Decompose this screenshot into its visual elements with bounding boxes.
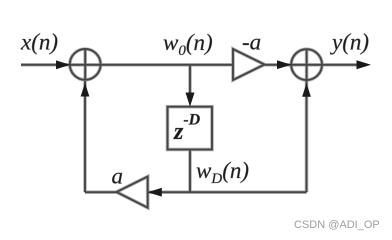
svg-text:wD(n): wD(n) (196, 158, 249, 187)
svg-text:w0(n): w0(n) (163, 30, 213, 59)
svg-text:CSDN @ADI_OP: CSDN @ADI_OP (294, 219, 380, 231)
svg-text:y(n): y(n) (330, 30, 369, 55)
svg-text:x(n): x(n) (20, 30, 58, 55)
svg-text:a: a (112, 164, 124, 189)
svg-text:z-D: z-D (173, 112, 201, 146)
svg-text:-a: -a (242, 30, 261, 55)
